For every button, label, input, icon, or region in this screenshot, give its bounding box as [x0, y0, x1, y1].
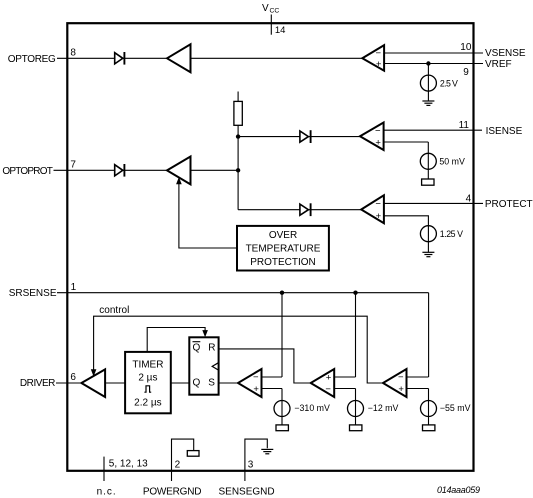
svg-text:+: + — [326, 372, 332, 383]
svg-text:OVER: OVER — [269, 230, 297, 241]
svg-text:10: 10 — [460, 42, 472, 53]
svg-text:3: 3 — [248, 460, 254, 471]
svg-text:TEMPERATURE: TEMPERATURE — [246, 244, 321, 255]
svg-text:TIMER: TIMER — [132, 360, 163, 371]
svg-text:OPTOREG: OPTOREG — [8, 54, 56, 65]
svg-text:DRIVER: DRIVER — [20, 378, 56, 389]
svg-text:50 mV: 50 mV — [439, 156, 465, 166]
svg-text:−: − — [325, 384, 331, 395]
svg-text:2: 2 — [175, 460, 181, 471]
svg-text:+: + — [398, 384, 404, 395]
svg-text:2.5 V: 2.5 V — [440, 78, 458, 88]
svg-text:S: S — [208, 377, 215, 388]
svg-text:5, 12, 13: 5, 12, 13 — [109, 459, 148, 470]
svg-text:PROTECT: PROTECT — [485, 199, 533, 210]
svg-text:R: R — [208, 343, 215, 354]
svg-text:−: − — [398, 372, 404, 383]
svg-text:+: + — [253, 384, 259, 395]
svg-text:V: V — [262, 3, 269, 14]
svg-text:+: + — [376, 59, 382, 70]
svg-text:2.2 µs: 2.2 µs — [134, 397, 161, 408]
svg-text:6: 6 — [70, 372, 76, 383]
svg-text:POWERGND: POWERGND — [143, 487, 202, 498]
svg-text:−: − — [375, 199, 381, 210]
svg-text:−: − — [376, 48, 382, 59]
svg-text:4: 4 — [466, 193, 472, 204]
svg-text:OPTOPROT: OPTOPROT — [2, 166, 52, 177]
svg-text:VSENSE: VSENSE — [485, 48, 526, 59]
svg-text:SENSEGND: SENSEGND — [219, 487, 275, 498]
svg-text:1: 1 — [71, 282, 77, 293]
svg-text:Q: Q — [193, 343, 201, 354]
svg-text:11: 11 — [459, 120, 470, 131]
svg-text:+: + — [375, 137, 381, 148]
svg-text:+: + — [376, 211, 382, 222]
svg-text:n.c.: n.c. — [97, 487, 116, 498]
svg-text:−12 mV: −12 mV — [368, 403, 399, 413]
svg-text:SRSENSE: SRSENSE — [9, 288, 57, 299]
svg-text:control: control — [99, 305, 129, 316]
svg-text:VREF: VREF — [485, 59, 512, 70]
svg-text:PROTECTION: PROTECTION — [250, 257, 316, 268]
svg-text:−55 mV: −55 mV — [440, 403, 471, 413]
svg-text:014aaa059: 014aaa059 — [437, 485, 480, 495]
svg-text:7: 7 — [70, 160, 76, 171]
svg-text:−: − — [253, 372, 259, 383]
svg-text:ISENSE: ISENSE — [486, 126, 523, 137]
svg-text:CC: CC — [270, 8, 280, 15]
svg-text:2 µs: 2 µs — [138, 373, 157, 384]
svg-text:−310 mV: −310 mV — [294, 403, 330, 413]
svg-text:14: 14 — [275, 25, 286, 36]
svg-text:−: − — [375, 125, 381, 136]
svg-text:1.25 V: 1.25 V — [440, 229, 463, 239]
svg-text:Q: Q — [193, 377, 201, 388]
svg-text:9: 9 — [463, 67, 469, 78]
svg-text:8: 8 — [70, 48, 76, 59]
